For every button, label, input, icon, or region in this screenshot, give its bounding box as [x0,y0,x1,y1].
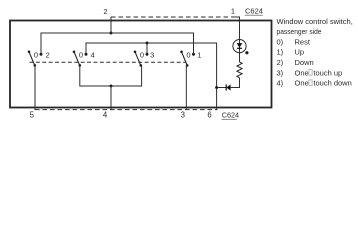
svg-text:5: 5 [30,111,35,120]
bus B wire (S2,S3 commons to pin 6) [86,43,217,110]
switch contact S4 (positions 0/1) [180,51,201,67]
svg-text:3: 3 [181,111,185,120]
svg-text:2): 2) [277,58,284,67]
switch housing outline [10,21,272,108]
svg-text:C624: C624 [222,110,239,119]
svg-text:Up: Up [295,48,305,57]
svg-text:1: 1 [197,51,201,60]
wire resistor to diode [231,78,240,88]
diode [217,84,231,90]
connector label C624 bottom [222,110,239,119]
pin 2 wire [110,17,112,33]
connector C624 bottom dashed line [35,109,218,111]
annotation: component description list [277,17,353,88]
svg-text:C624: C624 [245,7,263,16]
svg-text:0: 0 [34,51,38,60]
switch contact S1 (positions 0/2) [28,51,50,67]
svg-text:passenger side: passenger side [277,27,322,36]
svg-text:4: 4 [103,111,108,120]
connector label C624 top [245,7,263,16]
svg-text:1): 1) [277,48,284,57]
svg-text:One: One [295,68,309,77]
wire bus B to S3 common [146,43,148,54]
svg-text:One: One [295,79,309,88]
svg-text:2: 2 [46,51,50,60]
svg-text:0: 0 [186,51,190,60]
svg-text:3: 3 [150,51,154,60]
node pin4 rail junction [110,85,113,88]
svg-text:0: 0 [140,51,144,60]
svg-text:6: 6 [207,111,211,120]
switch contact S2 (positions 0/4) [73,51,95,67]
svg-text:4: 4 [91,51,95,60]
wire S4 lever to pin 3 [185,65,187,110]
wire S2 lever down and right to pin4 rail [80,65,142,86]
illumination lamp/LED [233,40,249,63]
node diode / pin6 wire junction [215,86,218,89]
svg-text:Down: Down [295,58,314,67]
svg-text:4): 4) [277,79,284,88]
wire S1 lever to pin 5 [34,65,36,110]
svg-text:0: 0 [79,51,83,60]
connector C624 top dashed line [111,16,236,18]
svg-text:3): 3) [277,68,284,77]
svg-text:2: 2 [103,7,107,16]
svg-text:0): 0) [277,37,284,46]
node bus B / S3 junction [146,42,149,45]
svg-text:touch down: touch down [313,79,351,88]
svg-text:1: 1 [231,7,235,16]
resistor [237,62,242,78]
wire pin 4 drop [110,86,112,110]
node pin2/bus A junction [110,32,113,35]
svg-text:Window control switch,: Window control switch, [277,17,353,26]
pin 1 wire [239,17,241,40]
mechanical linkage dashed line [30,61,187,63]
switch contact S3 (positions 0/3) [134,51,155,67]
bus A wire (pin2 to S1,S4 commons) [41,33,194,54]
svg-text:Rest: Rest [295,37,311,46]
svg-text:touch up: touch up [313,68,342,77]
